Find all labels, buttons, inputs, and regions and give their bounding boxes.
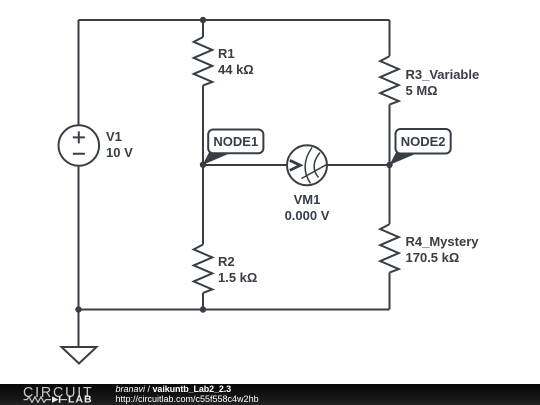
- junction dot node NODE1: [200, 162, 206, 168]
- voltmeter VM1: [287, 145, 327, 185]
- ground: [62, 347, 97, 364]
- wire R1 top lead: [202, 20, 204, 37]
- resistor R3: [380, 56, 399, 104]
- voltage source V1: [59, 125, 100, 166]
- CircuitLab logo diode bar: [59, 396, 61, 402]
- svg-text:R3_Variable: R3_Variable: [406, 67, 480, 82]
- wire left vertical upper (top to V1): [78, 20, 80, 125]
- svg-text:170.5 kΩ: 170.5 kΩ: [406, 250, 460, 265]
- wire R2 bottom lead: [202, 293, 204, 310]
- svg-text:5 MΩ: 5 MΩ: [406, 83, 438, 98]
- wire R1 to node1: [202, 85, 204, 164]
- wire R3 to node2: [389, 105, 391, 165]
- wire R4 bottom lead: [389, 273, 391, 310]
- svg-text:R4_Mystery: R4_Mystery: [406, 234, 480, 249]
- wire VM1 to node2: [327, 164, 390, 166]
- wire node1 to R2: [202, 165, 204, 245]
- CircuitLab logo resistor squiggle: [24, 397, 52, 403]
- wire node2 to R4: [389, 165, 391, 224]
- node NODE1 flag box: [208, 130, 263, 154]
- wire left vertical lower (V1 to bottom): [78, 166, 80, 310]
- junction dot node NODE2: [386, 162, 392, 168]
- wire R3 top lead: [389, 20, 391, 56]
- svg-text:V1: V1: [106, 129, 122, 144]
- resistor R2: [194, 245, 213, 293]
- svg-text:LAB: LAB: [68, 394, 93, 405]
- svg-text:R2: R2: [218, 254, 235, 269]
- junction dot bottom-middle (R2/bottom wire): [200, 306, 206, 312]
- wire node1 to VM1: [203, 164, 287, 166]
- svg-text:10 V: 10 V: [106, 145, 133, 160]
- svg-text:NODE1: NODE1: [213, 134, 258, 149]
- resistor R4: [380, 224, 399, 272]
- wire top horizontal: [79, 19, 390, 21]
- CircuitLab logo wire to LAB: [61, 399, 68, 401]
- resistor R1: [194, 37, 213, 85]
- svg-text:1.5 kΩ: 1.5 kΩ: [218, 270, 257, 285]
- CircuitLab logo diode triangle: [52, 396, 59, 402]
- svg-text:VM1: VM1: [294, 192, 321, 207]
- wire ground lead: [78, 310, 80, 348]
- node NODE1 flag tail: [203, 152, 235, 166]
- svg-text:NODE2: NODE2: [401, 134, 446, 149]
- wire bottom horizontal: [79, 309, 390, 311]
- svg-text:0.000 V: 0.000 V: [285, 208, 330, 223]
- svg-text:R1: R1: [218, 46, 235, 61]
- svg-text:44 kΩ: 44 kΩ: [218, 62, 254, 77]
- junction dot bottom-left (ground): [75, 306, 81, 312]
- svg-text:branavi / vaikuntb_Lab2_2.3: branavi / vaikuntb_Lab2_2.3: [116, 384, 232, 394]
- svg-text:http://circuitlab.com/c55f558c: http://circuitlab.com/c55f558c4w2hb: [116, 394, 259, 404]
- node NODE2 flag tail: [389, 152, 421, 166]
- junction dot top (R1/top wire): [200, 17, 206, 23]
- node NODE2 flag box: [396, 129, 451, 154]
- footer bar: [0, 384, 540, 405]
